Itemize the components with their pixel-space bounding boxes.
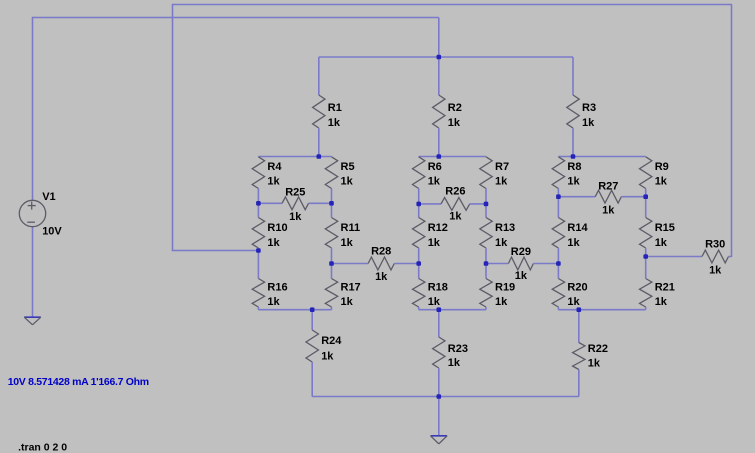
junction (319,156) (317, 154, 322, 159)
junction (439,310) (437, 307, 442, 312)
svg-text:R24: R24 (321, 335, 342, 347)
wire top distribution R1-R2-R3 (319, 56, 573, 58)
svg-text:1k: 1k (375, 271, 388, 283)
svg-text:R11: R11 (341, 222, 361, 234)
svg-text:10V 8.571428 mA 1'166.7 Ohm: 10V 8.571428 mA 1'166.7 Ohm (8, 376, 149, 388)
svg-text:10V: 10V (42, 226, 62, 238)
svg-text:R16: R16 (267, 282, 287, 294)
resistor R25 (258, 197, 331, 210)
resistor R10 (252, 203, 264, 250)
wire cell2 bottom (419, 309, 486, 311)
resistor R15 (640, 197, 652, 257)
svg-text:R3: R3 (582, 102, 596, 114)
wire V1 top rail (33, 17, 439, 19)
junction (558,264) (556, 261, 561, 266)
svg-text:1k: 1k (567, 296, 580, 308)
resistor R18 (413, 264, 425, 310)
voltage source V1 (19, 200, 45, 226)
svg-text:1k: 1k (582, 117, 595, 129)
svg-text:R5: R5 (341, 161, 355, 173)
svg-text:1k: 1k (428, 296, 441, 308)
resistor R21 (640, 257, 652, 310)
svg-text:1k: 1k (267, 237, 280, 249)
wire V1 positive lead (32, 17, 34, 201)
resistor R16 (252, 251, 264, 310)
svg-text:1k: 1k (341, 176, 354, 188)
svg-text:1k: 1k (448, 117, 461, 129)
svg-text:R12: R12 (428, 222, 448, 234)
svg-text:R22: R22 (588, 343, 608, 355)
wire cell3 bottom (558, 309, 645, 311)
wire feed horizontal to node between R10 and R16 (172, 250, 259, 252)
resistor R14 (552, 197, 564, 264)
svg-text:1k: 1k (602, 204, 615, 216)
svg-text:R20: R20 (567, 282, 587, 294)
ground (below V1) (24, 317, 41, 325)
wire top rail (173, 4, 733, 6)
svg-text:1k: 1k (495, 296, 508, 308)
junction (312,310) (310, 307, 315, 312)
svg-text:R29: R29 (511, 246, 531, 258)
resistor R6 (413, 157, 425, 204)
resistor R3 (567, 57, 579, 157)
wire cell2 top (419, 156, 486, 158)
junction (332,264) (329, 261, 334, 266)
wire V1 negative lead to ground (32, 227, 34, 318)
resistor R27 (558, 190, 645, 203)
resistor R12 (413, 204, 425, 264)
svg-text:R8: R8 (567, 161, 581, 173)
svg-text:1k: 1k (588, 358, 601, 370)
resistor R29 (486, 257, 558, 270)
svg-text:1k: 1k (515, 270, 528, 282)
wire right vertical to R30 (731, 5, 733, 258)
resistor R17 (325, 264, 337, 310)
resistor R24 (306, 310, 318, 397)
svg-text:R19: R19 (495, 282, 515, 294)
junction (332,203) (329, 201, 334, 206)
svg-text:R7: R7 (495, 161, 509, 173)
wire cell3 top (558, 156, 645, 158)
junction (419,204) (416, 202, 421, 207)
wire left feed vertical (172, 4, 174, 251)
svg-text:R26: R26 (445, 186, 465, 198)
wire cell1 top (258, 156, 331, 158)
resistor R22 (573, 310, 585, 397)
svg-text:1k: 1k (448, 357, 461, 369)
resistor R26 (419, 198, 486, 211)
junction (258,203) (256, 201, 261, 206)
svg-text:R21: R21 (655, 282, 675, 294)
resistor R4 (252, 157, 264, 204)
resistor R23 (433, 310, 445, 397)
svg-text:1k: 1k (341, 296, 354, 308)
svg-text:R1: R1 (328, 102, 342, 114)
wire vertical into R2 top node (438, 18, 440, 58)
wire bottom rail (312, 396, 579, 398)
wire cell1 bottom (258, 309, 331, 311)
svg-text:R30: R30 (705, 239, 725, 251)
junction (439,57) (437, 55, 442, 60)
junction (439,396) (437, 394, 442, 399)
junction (439,156) (437, 154, 442, 159)
junction (419,264) (416, 261, 421, 266)
resistor R5 (325, 157, 337, 204)
svg-text:R6: R6 (428, 161, 442, 173)
junction (579,310) (577, 307, 582, 312)
svg-text:R13: R13 (495, 222, 515, 234)
junction (486,264) (484, 261, 489, 266)
svg-text:1k: 1k (267, 176, 280, 188)
svg-text:1k: 1k (709, 265, 722, 277)
junction (646,197) (643, 194, 648, 199)
svg-text:1k: 1k (341, 237, 354, 249)
junction (646,256) (643, 254, 648, 259)
resistor R2 (433, 57, 445, 157)
junction (486,204) (484, 202, 489, 207)
svg-text:R15: R15 (655, 222, 675, 234)
svg-text:R4: R4 (267, 161, 282, 173)
svg-text:1k: 1k (289, 211, 302, 223)
resistor R11 (325, 203, 337, 263)
svg-text:1k: 1k (567, 176, 580, 188)
svg-text:R18: R18 (428, 282, 448, 294)
svg-text:R10: R10 (267, 222, 287, 234)
junction (558,197) (556, 194, 561, 199)
wire ground stem (438, 397, 440, 436)
svg-text:1k: 1k (655, 176, 668, 188)
svg-text:1k: 1k (449, 210, 462, 222)
svg-text:1k: 1k (321, 351, 334, 363)
svg-text:1k: 1k (655, 237, 668, 249)
resistor R30 (646, 250, 732, 263)
svg-text:V1: V1 (42, 191, 55, 203)
resistor R8 (552, 157, 564, 197)
svg-text:1k: 1k (567, 237, 580, 249)
svg-text:1k: 1k (267, 296, 280, 308)
resistor R20 (552, 264, 564, 310)
resistor R7 (480, 157, 492, 204)
svg-text:1k: 1k (428, 176, 441, 188)
resistor R19 (480, 264, 492, 310)
resistor R13 (480, 204, 492, 264)
svg-text:1k: 1k (328, 117, 341, 129)
svg-text:1k: 1k (655, 296, 668, 308)
svg-text:.tran 0 2 0: .tran 0 2 0 (18, 441, 67, 453)
svg-text:R28: R28 (371, 245, 391, 257)
resistor R1 (313, 57, 325, 157)
svg-text:1k: 1k (428, 237, 441, 249)
svg-text:1k: 1k (495, 176, 508, 188)
resistor R28 (332, 257, 419, 270)
svg-text:R9: R9 (655, 161, 669, 173)
svg-text:R27: R27 (598, 180, 618, 192)
svg-text:R2: R2 (448, 102, 462, 114)
svg-text:R14: R14 (567, 222, 588, 234)
junction (258,250) (256, 248, 261, 253)
svg-text:R23: R23 (448, 343, 468, 355)
svg-text:R17: R17 (341, 282, 361, 294)
junction (573,156) (571, 154, 576, 159)
svg-text:R25: R25 (285, 186, 305, 198)
ground (main, below R23) (431, 436, 448, 444)
svg-text:1k: 1k (495, 237, 508, 249)
resistor R9 (640, 157, 652, 197)
